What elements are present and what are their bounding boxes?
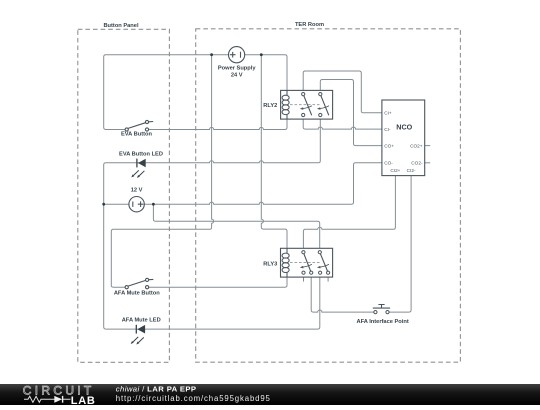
LED D2 AFA Mute LED bbox=[122, 318, 161, 345]
svg-text:http://circuitlab.com/cha595gk: http://circuitlab.com/cha595gkabd95 bbox=[116, 394, 271, 403]
relay RLY3 switch 2 bbox=[320, 254, 327, 271]
wire left rail: EVA LED row down to AFA Mute LED row bbox=[104, 163, 106, 329]
junction dots bbox=[102, 53, 262, 205]
wire top rail left: top wire to EVA button bbox=[104, 55, 229, 130]
wire AFA Mute Button right to RLY3 coil bottom bbox=[149, 277, 287, 287]
voltage source V1 Power Supply 24V bbox=[218, 47, 256, 79]
relay RLY2 switch 2 bbox=[321, 96, 329, 116]
wire CI- net: RLY2 sw1 bottom to NCO CI- bbox=[303, 117, 382, 130]
svg-text:CO2+: CO2+ bbox=[410, 143, 423, 148]
wire NCO CO2+ stub bbox=[425, 145, 431, 147]
wire AFA interface net: RLY3 sw1 throw to interface point left pin bbox=[311, 274, 374, 312]
relay RLY2 bbox=[263, 90, 332, 119]
svg-text:NCO: NCO bbox=[396, 122, 412, 131]
push button AFA Interface Point bbox=[356, 305, 408, 325]
wire 12V right to NCO CO- bbox=[144, 163, 382, 204]
svg-text:24 V: 24 V bbox=[231, 72, 243, 78]
wire RLY3 unused throw stub pin 4 bbox=[327, 277, 329, 282]
wire RLY3 unused throw stub pin 1 bbox=[303, 277, 305, 282]
relay RLY3 switch 1 bbox=[304, 254, 311, 271]
wire RLY2 sw2 common to NCO CO+ bbox=[320, 80, 382, 146]
voltage source V2 12V bbox=[129, 188, 144, 212]
svg-text:RLY2: RLY2 bbox=[263, 103, 277, 109]
svg-text:AFA Mute Button: AFA Mute Button bbox=[114, 290, 160, 296]
svg-text:CO+: CO+ bbox=[384, 143, 394, 148]
svg-text:AFA Mute LED: AFA Mute LED bbox=[122, 318, 161, 324]
svg-text:CI-: CI- bbox=[384, 127, 391, 132]
node dot 12V right bbox=[152, 203, 155, 206]
wire rail B (x=261.3) to RLY3 coil top bbox=[261, 55, 287, 249]
wire RLY2 sw1 common to NCO CI+ bbox=[303, 71, 382, 113]
svg-text:Power Supply: Power Supply bbox=[218, 66, 256, 72]
svg-text:LAB: LAB bbox=[71, 395, 96, 405]
wire NCO CO2- stub bbox=[425, 162, 431, 164]
svg-text:CI2+: CI2+ bbox=[390, 168, 400, 173]
svg-text:chiwai / LAR PA EPP: chiwai / LAR PA EPP bbox=[116, 385, 197, 394]
wire EVA button right to RLY2 coil bottom bbox=[149, 119, 287, 129]
footer bar bbox=[0, 384, 540, 405]
logo waveform: line, resistor zigzag, diode, line bbox=[24, 396, 71, 402]
svg-text:CO-: CO- bbox=[384, 160, 393, 165]
LED D1 EVA Button LED bbox=[119, 151, 163, 178]
node dot top rail B bbox=[260, 53, 263, 56]
relay RLY2 linkage bbox=[290, 104, 320, 106]
wire AFA Mute LED row: rail to RLY3 sw2 throw bbox=[106, 274, 320, 329]
svg-text:12 V: 12 V bbox=[131, 188, 143, 194]
svg-text:CO2-: CO2- bbox=[411, 160, 423, 165]
relay RLY3 bbox=[263, 248, 332, 277]
svg-text:TER Room: TER Room bbox=[295, 22, 324, 28]
wire 12V+ branch to RLY3 sw2 common bbox=[153, 204, 319, 250]
wire CI2- net: interface point right pin to NCO CI2- bbox=[389, 176, 411, 313]
Button Panel dashed region box bbox=[78, 29, 170, 362]
wire 12V left pin to rail bbox=[104, 203, 129, 205]
svg-text:EVA Button LED: EVA Button LED bbox=[119, 151, 163, 157]
svg-text:RLY3: RLY3 bbox=[263, 262, 277, 268]
wire top right: power supply to RLY2 coil top bbox=[245, 55, 287, 91]
switch SW1 EVA Button bbox=[125, 120, 153, 131]
svg-text:Button Panel: Button Panel bbox=[103, 23, 138, 29]
relay RLY2 switch 1 bbox=[304, 96, 312, 116]
relay RLY3 linkage bbox=[290, 262, 320, 264]
node dot 12V left bbox=[102, 203, 105, 206]
svg-text:CI2-: CI2- bbox=[407, 168, 416, 173]
node dot top rail A bbox=[210, 53, 213, 56]
svg-text:EVA Button: EVA Button bbox=[121, 132, 152, 138]
IC U1 NCO bbox=[382, 100, 425, 176]
switch SW2 AFA Mute Button bbox=[125, 278, 153, 289]
wire CI2+ net: RLY3 sw1 common to NCO CI2+ bbox=[303, 176, 395, 251]
svg-text:CI+: CI+ bbox=[384, 111, 392, 116]
relay RLY3 coil bbox=[282, 248, 289, 277]
wire rail A (x=211.6) to AFA Mute Button bbox=[111, 55, 213, 288]
TER Room dashed region box bbox=[196, 29, 461, 362]
relay RLY2 coil bbox=[282, 90, 289, 119]
wire EVA LED row: rail to RLY2 sw2 bottom bbox=[106, 117, 320, 163]
svg-text:AFA Interface Point: AFA Interface Point bbox=[356, 319, 408, 325]
